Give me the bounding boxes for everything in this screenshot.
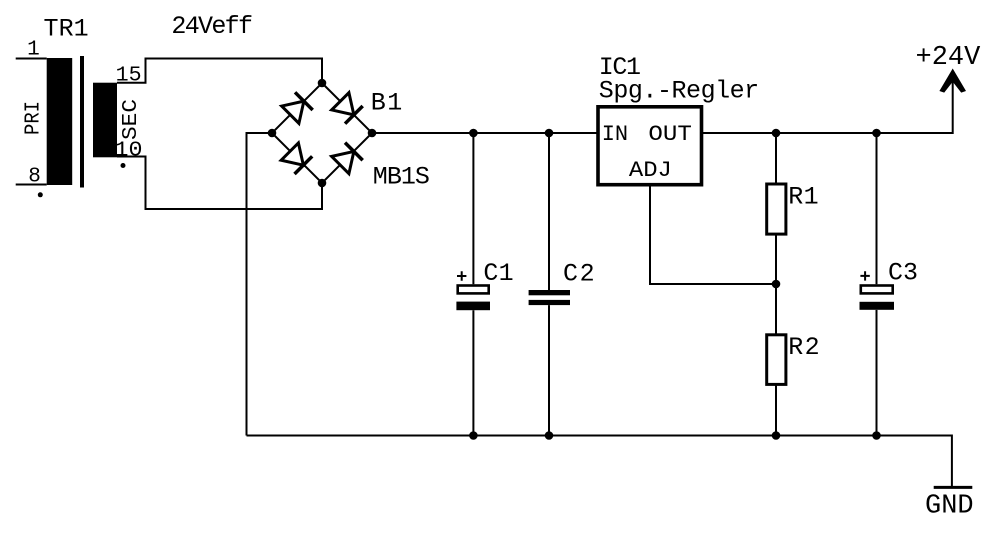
svg-text:15: 15 — [116, 65, 142, 88]
svg-text:C3: C3 — [888, 258, 918, 287]
svg-text:OUT: OUT — [648, 122, 692, 147]
svg-text:8: 8 — [28, 165, 41, 188]
svg-text:C1: C1 — [483, 259, 513, 288]
svg-text:R1: R1 — [788, 183, 818, 212]
svg-text:SEC: SEC — [120, 99, 143, 140]
svg-text:B1: B1 — [371, 89, 403, 118]
svg-text:24Veff: 24Veff — [171, 12, 253, 41]
svg-text:IN: IN — [602, 122, 628, 147]
svg-text:MB1S: MB1S — [373, 162, 430, 191]
svg-text:Spg.-Regler: Spg.-Regler — [599, 76, 759, 105]
svg-text:C2: C2 — [563, 260, 595, 289]
svg-text:ADJ: ADJ — [629, 158, 672, 183]
svg-text:+24V: +24V — [916, 43, 982, 73]
svg-text:PRI: PRI — [23, 101, 46, 135]
svg-text:GND: GND — [925, 491, 974, 521]
svg-text:10: 10 — [115, 140, 143, 163]
svg-text:R2: R2 — [788, 333, 819, 362]
svg-text:1: 1 — [27, 39, 40, 62]
svg-text:TR1: TR1 — [44, 15, 89, 44]
